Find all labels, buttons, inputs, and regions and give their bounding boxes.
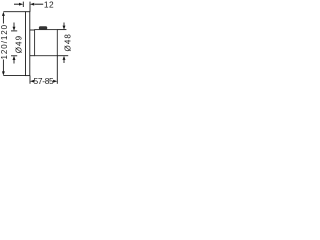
- dimension D49 up arrow below: [13, 56, 16, 64]
- svg-text:57-85: 57-85: [34, 76, 55, 86]
- sleeve bottom line: [30, 55, 35, 57]
- dimension D48 up arrow below: [63, 56, 66, 63]
- dimension 120/120 vertical line lower segment with down arrow: [2, 60, 5, 76]
- plate side view tall rectangle: [26, 12, 30, 76]
- svg-text:Ø48: Ø48: [63, 33, 72, 51]
- dimension D49 bottom tick: [11, 55, 17, 57]
- svg-text:Ø49: Ø49: [14, 35, 23, 53]
- dimension 120/120 vertical line upper segment with up arrow: [2, 12, 5, 24]
- svg-text:120/120: 120/120: [0, 24, 9, 60]
- dimension D48 down arrow above: [63, 23, 66, 30]
- extension line bottom of plate to left: [3, 75, 25, 77]
- extension line top of plate to left: [3, 11, 25, 13]
- dimension 12 left tick: [22, 2, 24, 7]
- extension line plate right edge down: [29, 76, 31, 84]
- dimension D49 top tick: [11, 30, 17, 32]
- sleeve top line: [30, 29, 35, 31]
- dimension D49 down arrow above: [13, 23, 16, 31]
- dimension 12 right tick down to plate corner: [29, 2, 31, 12]
- dimension 57-85 left arrow: [30, 80, 34, 83]
- extension line body top right: [57, 29, 66, 31]
- dimension 57-85 right arrow: [53, 80, 57, 83]
- dimension 12 right arrow and line to label: [30, 3, 43, 6]
- svg-text:12: 12: [44, 0, 54, 10]
- extension line body bottom right: [57, 55, 68, 57]
- cap bump on body top: [39, 26, 47, 29]
- valve body rectangle: [35, 30, 58, 56]
- extension line body right edge down: [56, 56, 58, 84]
- dimension 12 line left segment with right arrow: [14, 3, 23, 6]
